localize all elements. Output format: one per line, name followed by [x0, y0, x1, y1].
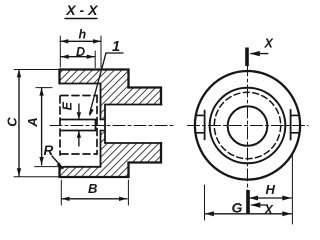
- slot top line: [61, 119, 96, 121]
- left slit flat: [204, 111, 206, 140]
- section title X-X: [65, 2, 99, 18]
- svg-text:E: E: [60, 101, 74, 110]
- dimension G: [205, 154, 293, 224]
- leader label 1: [90, 39, 124, 117]
- bore top line: [105, 104, 162, 106]
- bore bottom line: [105, 142, 162, 144]
- hatch upper region: [60, 70, 162, 120]
- section arrow bottom: [250, 202, 273, 217]
- title underline: [65, 18, 97, 20]
- hidden feature 1 dashed top: [61, 95, 97, 97]
- right view vertical centerline: [247, 64, 249, 213]
- right view hub circle: [210, 88, 286, 164]
- web hole bottom edge: [101, 130, 106, 132]
- section line mark top: [245, 48, 249, 67]
- svg-text:X - X: X - X: [65, 2, 99, 18]
- left slit wall bottom: [196, 132, 205, 134]
- svg-text:B: B: [88, 181, 97, 196]
- hidden feature 1 dashed right: [96, 96, 98, 155]
- svg-text:C: C: [5, 117, 20, 127]
- web hole top edge: [101, 119, 106, 121]
- section line mark bottom: [246, 190, 250, 214]
- svg-text:X: X: [264, 203, 274, 217]
- svg-text:G: G: [232, 200, 243, 216]
- dimension D: [61, 45, 95, 68]
- left slit wall top: [196, 114, 204, 116]
- svg-text:X: X: [264, 37, 274, 51]
- left view centerline: [50, 125, 173, 127]
- web face upper: [100, 84, 102, 120]
- dimension A: [25, 88, 59, 167]
- hidden feature 1 dashed left: [59, 96, 61, 155]
- left view outer profile: [60, 70, 162, 178]
- right view dashed circle: [214, 92, 280, 158]
- slot end face: [95, 120, 97, 131]
- hatch lower region: [60, 131, 162, 178]
- section arrow top: [250, 37, 274, 57]
- counterbore top line: [60, 83, 101, 85]
- right slit wall top: [291, 114, 299, 116]
- right view bore circle: [228, 106, 268, 146]
- dimension C: [5, 69, 59, 176]
- dimension E: [60, 101, 81, 146]
- web face lower: [100, 131, 102, 167]
- dimension B: [61, 180, 128, 205]
- leader R: [44, 143, 64, 169]
- dimension h: [60, 28, 101, 68]
- right view outer circle: [195, 71, 300, 180]
- svg-text:h: h: [79, 28, 87, 42]
- right slit wall bottom: [291, 132, 299, 134]
- slot bottom line: [61, 130, 96, 132]
- right view horizontal centerline: [188, 125, 309, 127]
- dimension H: [249, 182, 292, 201]
- svg-text:D: D: [76, 45, 85, 59]
- bore shoulder: [104, 105, 106, 144]
- hidden feature 1 dashed bottom: [61, 153, 97, 155]
- svg-text:H: H: [266, 182, 276, 197]
- svg-text:A: A: [25, 117, 40, 127]
- right slit flat: [290, 110, 292, 140]
- counterbore bottom line with fillet R: [60, 167, 101, 171]
